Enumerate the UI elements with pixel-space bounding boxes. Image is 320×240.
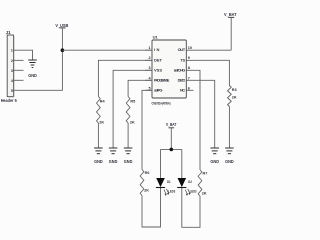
ground below R5	[124, 148, 133, 164]
wire R7 to LED D2 cathode	[182, 187, 200, 227]
U1 pin numbers left	[148, 46, 151, 91]
svg-text:NC: NC	[180, 87, 185, 92]
svg-text:GND: GND	[109, 159, 118, 164]
svg-text:GND: GND	[210, 159, 219, 164]
svg-text:V_BAT: V_BAT	[166, 122, 177, 127]
resistor R5	[126, 97, 135, 125]
wire LED rail	[161, 148, 182, 150]
U1 pin names	[154, 47, 186, 92]
ground near J1	[28, 60, 37, 78]
wire R5 to ground	[127, 123, 129, 148]
svg-text:LED3: LED3	[190, 189, 197, 193]
wire R3 to ground	[228, 107, 230, 148]
svg-text:1: 1	[11, 49, 13, 53]
svg-text:10: 10	[188, 46, 192, 50]
wire J1 pin3 stub	[14, 69, 24, 71]
svg-text:2: 2	[11, 59, 13, 63]
svg-text:9: 9	[188, 56, 190, 60]
junction V_BAT rail	[170, 148, 174, 152]
svg-text:V_BAT: V_BAT	[224, 12, 237, 17]
svg-text:2K: 2K	[99, 120, 104, 124]
junction V_USB node	[61, 48, 65, 52]
power flag V_BAT mid	[166, 122, 177, 149]
connector J1	[1, 30, 18, 103]
svg-text:4: 4	[11, 79, 13, 83]
wire U1 pin10 to V_BAT	[194, 49, 232, 51]
ground below pin3 wire	[109, 148, 118, 164]
svg-text:GND: GND	[94, 159, 103, 164]
svg-text:5: 5	[148, 87, 150, 91]
wire J1 pin5 to V_USB node	[14, 50, 63, 90]
LED D1	[156, 149, 175, 196]
svg-text:PROG/SENSE: PROG/SENSE	[154, 78, 170, 82]
svg-text:R6: R6	[145, 171, 150, 175]
svg-text:J1: J1	[6, 30, 11, 35]
wire U1 pin9 to R3	[194, 60, 230, 86]
wire J1 pin4 stub	[14, 79, 24, 81]
wire U1 pin5 to R6	[142, 90, 152, 169]
svg-text:3: 3	[11, 69, 13, 73]
IC U1	[145, 35, 194, 106]
wire U1 pin3 to ground	[113, 70, 152, 147]
svg-text:CN3052A(4056A): CN3052A(4056A)	[152, 101, 172, 105]
svg-text:D2: D2	[188, 180, 192, 184]
svg-text:GND: GND	[225, 159, 234, 164]
svg-text:U1: U1	[153, 35, 159, 40]
wire J1 pin2 stub	[14, 59, 24, 61]
svg-text:7: 7	[188, 76, 190, 80]
svg-text:OUT: OUT	[178, 47, 186, 52]
wire U1 pin2	[98, 60, 152, 96]
svg-text:R7: R7	[203, 172, 208, 176]
svg-text:LED3: LED3	[168, 189, 175, 193]
svg-text:2: 2	[148, 56, 150, 60]
svg-text:8: 8	[188, 66, 190, 70]
svg-text:DET2: DET2	[178, 77, 186, 82]
resistor R4	[97, 97, 106, 125]
resistor R6	[140, 170, 149, 196]
svg-text:2K: 2K	[144, 189, 149, 193]
wire R4 to ground	[97, 123, 99, 148]
svg-text:2K: 2K	[232, 95, 237, 99]
svg-text:GND: GND	[28, 73, 37, 78]
svg-text:DET: DET	[154, 57, 163, 62]
wire R6 to LED D1 cathode	[142, 187, 161, 227]
wire J1 pin1 to ground	[14, 50, 33, 60]
svg-text:2K: 2K	[202, 191, 207, 195]
power flag V_USB	[55, 23, 68, 50]
svg-text:Header 5: Header 5	[1, 98, 18, 103]
U1 pin numbers right	[188, 46, 192, 91]
wire U1 pin8 to R7	[194, 70, 201, 170]
wire U1 pin4	[128, 80, 152, 96]
resistor R7	[198, 170, 207, 196]
svg-text:VSS: VSS	[154, 67, 162, 72]
resistor R3	[228, 86, 237, 107]
svg-text:R5: R5	[130, 99, 135, 103]
svg-text:R3: R3	[232, 88, 237, 92]
svg-text:6: 6	[188, 87, 190, 91]
svg-text:IN: IN	[154, 47, 160, 52]
power flag V_BAT top	[224, 12, 237, 50]
svg-text:D1: D1	[167, 180, 171, 184]
wire V_USB node to U1 pin1	[62, 49, 152, 51]
svg-text:3: 3	[148, 66, 150, 70]
svg-text:set/PG: set/PG	[154, 87, 163, 92]
svg-text:1: 1	[148, 46, 150, 50]
LED D2	[177, 149, 196, 196]
svg-text:set/CHG: set/CHG	[174, 67, 186, 72]
svg-text:GND: GND	[124, 159, 133, 164]
ground below R3	[225, 148, 234, 164]
ground below R4	[94, 148, 103, 164]
svg-text:5: 5	[11, 89, 13, 93]
svg-text:2K: 2K	[130, 120, 135, 124]
svg-text:TS: TS	[180, 57, 185, 62]
ground below pin7 wire	[210, 148, 219, 164]
wire U1 pin7 to ground	[194, 80, 215, 147]
